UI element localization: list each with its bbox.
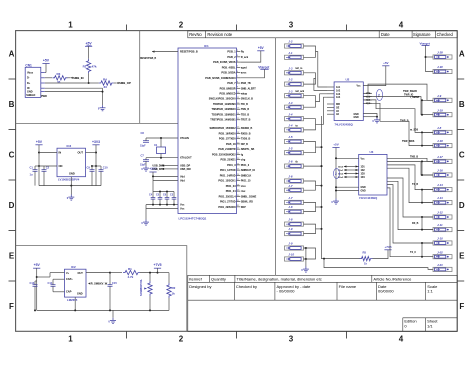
capacitor C10 bbox=[99, 166, 109, 186]
svg-text:TMS_B: TMS_B bbox=[241, 108, 250, 111]
power Vtarget (right column) bbox=[420, 41, 434, 71]
svg-text:C2: C2 bbox=[46, 166, 50, 170]
svg-text:J-7: J-7 bbox=[288, 196, 293, 200]
jumper J-11 (right column row 12) bbox=[433, 223, 452, 232]
jumper J-18 (right column row 6) bbox=[433, 139, 452, 148]
MCU left pins bbox=[140, 50, 198, 210]
svg-text:J-2: J-2 bbox=[288, 78, 293, 82]
svg-text:PGB_7: PGB_7 bbox=[227, 82, 236, 85]
jumper J-13 (right column row 10) bbox=[433, 196, 452, 205]
connector CN1 bbox=[25, 63, 45, 97]
svg-text:+5V: +5V bbox=[258, 46, 265, 50]
svg-text:Checked by: Checked by bbox=[236, 284, 257, 289]
wire U2 ground bbox=[363, 114, 378, 118]
U2 left pin stubs bbox=[327, 87, 334, 114]
U2 output pins with arrows bbox=[363, 92, 372, 104]
svg-text:IC3: IC3 bbox=[67, 144, 72, 148]
net label R_SMBXV_W bbox=[88, 282, 108, 286]
svg-text:USB_DM: USB_DM bbox=[180, 168, 191, 171]
svg-text:R_ack: R_ack bbox=[241, 56, 249, 59]
net label SMB_IN bbox=[68, 76, 84, 80]
svg-text:avss: avss bbox=[241, 72, 247, 75]
svg-text:OUT: OUT bbox=[78, 151, 84, 155]
svg-text:A: A bbox=[9, 50, 15, 59]
svg-text:Vss: Vss bbox=[180, 208, 185, 211]
svg-text:CAP+: CAP+ bbox=[66, 278, 73, 281]
svg-text:Vpwr: Vpwr bbox=[86, 45, 91, 47]
wire jumper pair link bbox=[304, 142, 316, 153]
svg-text:XTALOUT: XTALOUT bbox=[180, 157, 192, 160]
wire IC3 input bbox=[39, 153, 57, 167]
jumper J-16 (right column row 8) bbox=[433, 169, 452, 177]
revision note bar bbox=[188, 31, 457, 38]
svg-text:R1: R1 bbox=[128, 267, 132, 271]
svg-text:J-6: J-6 bbox=[288, 175, 293, 179]
ground (MCU Vss) bbox=[141, 220, 149, 226]
jumper J-2 (mid column row 1) bbox=[285, 40, 304, 49]
svg-text:RESET/PGB_B: RESET/PGB_B bbox=[140, 58, 157, 60]
capacitor C3 bbox=[170, 192, 176, 205]
svg-text:Designed by: Designed by bbox=[189, 284, 211, 289]
wire box C ground rail bbox=[34, 297, 169, 318]
MCU right pins group 1 bbox=[205, 50, 240, 122]
svg-text:Vdd: Vdd bbox=[180, 180, 185, 183]
svg-text:DN7: DN7 bbox=[241, 206, 247, 209]
wire bus to U2 inputs bbox=[314, 52, 327, 148]
svg-text:B: B bbox=[459, 100, 465, 109]
svg-text:ON: ON bbox=[59, 164, 63, 168]
resistor R5 bbox=[360, 250, 373, 265]
wire jumper pair link (right column) bbox=[421, 160, 433, 176]
capacitor C9 bbox=[87, 166, 95, 186]
power +7V5 bbox=[153, 263, 169, 273]
svg-text:GND: GND bbox=[361, 187, 366, 189]
resistor R1 (box C) bbox=[123, 267, 158, 279]
power +5V (regulator in) bbox=[35, 140, 42, 186]
capacitor C8 bbox=[140, 131, 149, 148]
svg-text:IC2: IC2 bbox=[71, 265, 76, 269]
power +3V3 (MCU supply) bbox=[149, 167, 157, 181]
jumper J-30 (right column row 2) bbox=[433, 65, 452, 74]
svg-text:Checked: Checked bbox=[437, 32, 454, 37]
jumper J-5 (mid column row 10) bbox=[285, 146, 304, 155]
svg-text:74LVC4245BQ: 74LVC4245BQ bbox=[359, 196, 377, 200]
svg-text:J-6: J-6 bbox=[288, 160, 293, 164]
svg-text:RevNo: RevNo bbox=[189, 32, 202, 37]
op-amp U1 MCU IC1 body bbox=[178, 44, 237, 221]
svg-text:SOSMBCPVOL: SOSMBCPVOL bbox=[140, 278, 143, 296]
U3 input pins with labels bbox=[338, 165, 359, 178]
wire to jumper J-01 bbox=[323, 258, 433, 270]
jumper J-9 (mid column row 18) bbox=[285, 242, 304, 250]
IC regulator IC3 bbox=[57, 144, 86, 181]
svg-text:SMB_OP: SMB_OP bbox=[119, 81, 131, 85]
svg-text:C14: C14 bbox=[48, 281, 53, 285]
svg-text:J-30: J-30 bbox=[437, 65, 443, 69]
svg-text:J-02: J-02 bbox=[437, 250, 443, 254]
svg-text:33: 33 bbox=[104, 85, 108, 89]
svg-text:File name: File name bbox=[339, 284, 357, 289]
power +5V (CN1) bbox=[42, 59, 49, 73]
svg-text:J-14: J-14 bbox=[437, 183, 443, 187]
wire IC2 out net bbox=[86, 272, 122, 285]
jumper J-9 (right column row 3) bbox=[433, 94, 452, 102]
svg-text:C1: C1 bbox=[30, 166, 34, 170]
resistor R2 (box C) bbox=[167, 273, 176, 311]
capacitor C5 bbox=[156, 191, 162, 205]
wire jumper pair link bbox=[304, 224, 316, 234]
svg-text:PGB_1: PGB_1 bbox=[227, 51, 236, 54]
capacitor C14 (flying cap) bbox=[48, 279, 65, 292]
svg-text:1: 1 bbox=[68, 334, 73, 343]
svg-text:J-8: J-8 bbox=[288, 205, 293, 209]
svg-text:J-9: J-9 bbox=[288, 242, 293, 246]
svg-text:15pF: 15pF bbox=[140, 145, 146, 148]
resistor R3 bbox=[45, 72, 68, 84]
svg-text:PIO1_14/RXD: PIO1_14/RXD bbox=[220, 174, 236, 177]
svg-text:SMBCLK: SMBCLK bbox=[241, 174, 252, 177]
svg-text:00/00/00: 00/00/00 bbox=[378, 288, 394, 293]
jumper J-19 (right column row 4) bbox=[433, 108, 452, 116]
svg-text:PGB_5/SDA: PGB_5/SDA bbox=[221, 72, 235, 75]
svg-text:- 00/00/00: - 00/00/00 bbox=[277, 288, 296, 293]
svg-text:R5: R5 bbox=[363, 250, 367, 254]
wire jumper pair link (right column) bbox=[421, 216, 433, 231]
svg-text:C: C bbox=[9, 151, 15, 160]
wire jumper pair link bbox=[304, 248, 316, 259]
svg-text:rtsx: rtsx bbox=[241, 190, 246, 193]
svg-text:twl_ack: twl_ack bbox=[296, 90, 305, 93]
wire jumper pair link bbox=[304, 73, 316, 84]
svg-text:GND: GND bbox=[354, 117, 359, 119]
capacitor C15 bbox=[108, 281, 118, 310]
svg-text:IC1: IC1 bbox=[204, 44, 209, 48]
svg-text:Quantity: Quantity bbox=[211, 276, 226, 281]
jumper J-8 (right column row 5) bbox=[433, 126, 452, 135]
ground (crystal) bbox=[141, 161, 149, 171]
svg-text:J-9: J-9 bbox=[288, 227, 293, 231]
svg-text:J-4: J-4 bbox=[288, 124, 293, 128]
svg-text:twl_io: twl_io bbox=[296, 67, 303, 70]
svg-text:TDI/PGB_11/MOSI0: TDI/PGB_11/MOSI0 bbox=[213, 103, 236, 106]
bus tag (U3) bbox=[334, 169, 340, 179]
svg-text:TDO/PGB_13/MISO1: TDO/PGB_13/MISO1 bbox=[212, 113, 237, 116]
capacitor C1 bbox=[30, 166, 38, 186]
svg-text:PIO1_3: PIO1_3 bbox=[227, 164, 236, 167]
power Vtarget (MCU) bbox=[240, 65, 270, 78]
wire C8/C7 ground leg bbox=[0, 0, 1, 1]
wire R1 to D+ net bbox=[88, 73, 90, 84]
ground (U3) bbox=[331, 199, 339, 205]
svg-text:F: F bbox=[459, 302, 464, 311]
power +5V (U3) bbox=[332, 143, 358, 199]
svg-text:J-8: J-8 bbox=[437, 126, 442, 130]
svg-text:C15: C15 bbox=[112, 281, 117, 285]
svg-text:2: 2 bbox=[179, 334, 184, 343]
jumper J-3 (mid column row 3) bbox=[285, 66, 304, 74]
svg-text:C10: C10 bbox=[103, 166, 108, 170]
svg-text:Article No./Reference: Article No./Reference bbox=[373, 276, 412, 281]
svg-text:F: F bbox=[9, 302, 14, 311]
svg-text:Title/Name, designation, mater: Title/Name, designation, material, dimen… bbox=[237, 276, 322, 281]
ground (mid column) bbox=[301, 267, 309, 273]
svg-text:C7: C7 bbox=[141, 154, 145, 158]
wire Vss rails bbox=[146, 204, 178, 220]
wire regulator ground rail bbox=[35, 165, 101, 195]
svg-text:47k: 47k bbox=[92, 64, 97, 68]
svg-text:GND: GND bbox=[354, 114, 359, 116]
svg-text:SHIELD: SHIELD bbox=[26, 94, 35, 97]
svg-text:4.7k: 4.7k bbox=[128, 275, 134, 279]
svg-text:R1: R1 bbox=[83, 64, 87, 68]
svg-text:+3V3: +3V3 bbox=[92, 140, 100, 144]
svg-text:1u: 1u bbox=[30, 173, 33, 177]
IC U2 bbox=[334, 78, 363, 127]
jumper J-2 (mid column row 4) bbox=[285, 78, 304, 87]
net label SMB_OP bbox=[114, 81, 131, 85]
resistor R4 bbox=[45, 77, 114, 89]
jumper J-4 (mid column row 8) bbox=[285, 124, 304, 133]
jumper J-4 (mid column row 6) bbox=[285, 101, 304, 109]
capacitor C2 bbox=[42, 166, 50, 186]
svg-text:J-10: J-10 bbox=[437, 237, 443, 241]
svg-text:PIO1_27/TXD: PIO1_27/TXD bbox=[220, 201, 236, 204]
svg-text:1A2: 1A2 bbox=[336, 89, 341, 92]
ground (CN1) bbox=[98, 105, 106, 111]
svg-text:OUT: OUT bbox=[78, 272, 84, 275]
jumper J-1 (mid column row 2) bbox=[285, 51, 304, 60]
svg-text:+5V: +5V bbox=[43, 59, 50, 63]
svg-text:+7V5: +7V5 bbox=[153, 263, 161, 267]
svg-text:PGB_16/RXD0: PGB_16/RXD0 bbox=[219, 132, 237, 135]
title block bbox=[188, 275, 457, 331]
wire jumper pair link bbox=[304, 46, 316, 57]
jumper J-02 (right column row 14) bbox=[433, 250, 452, 259]
wire long vertical bus bbox=[321, 116, 361, 259]
svg-text:wkup: wkup bbox=[241, 92, 248, 95]
svg-text:J-18: J-18 bbox=[437, 139, 443, 143]
svg-text:2: 2 bbox=[179, 20, 184, 29]
svg-text:U2: U2 bbox=[346, 78, 350, 82]
svg-text:Itemref: Itemref bbox=[189, 276, 202, 281]
jumper J-6 (mid column row 11) bbox=[285, 160, 304, 169]
svg-text:C9: C9 bbox=[87, 166, 91, 170]
svg-text:A: A bbox=[459, 50, 465, 59]
MCU right net labels group 1 bbox=[241, 51, 256, 122]
svg-text:J-7: J-7 bbox=[288, 184, 293, 188]
crystal X1 bbox=[154, 143, 166, 154]
svg-text:X1: X1 bbox=[154, 143, 158, 147]
wire U3 ground bbox=[335, 186, 359, 191]
svg-text:SMB_IN: SMB_IN bbox=[73, 76, 84, 80]
svg-text:SMB_ALERT: SMB_ALERT bbox=[241, 87, 256, 90]
svg-text:R_SMBXV_W: R_SMBXV_W bbox=[91, 282, 108, 286]
svg-text:agnd: agnd bbox=[241, 66, 247, 69]
jumper J-8 (mid column row 16) bbox=[285, 218, 304, 227]
power +3V3 (regulator out) bbox=[92, 140, 100, 186]
svg-text:Revision note: Revision note bbox=[207, 32, 233, 37]
svg-text:PWR: PWR bbox=[41, 95, 47, 98]
svg-text:RESET/PGB_B: RESET/PGB_B bbox=[180, 51, 198, 54]
svg-text:chg: chg bbox=[241, 159, 246, 162]
svg-text:TWR_B: TWR_B bbox=[400, 120, 409, 123]
wire jumper pair link (right column) bbox=[421, 131, 433, 146]
svg-text:PGB_4/SDL: PGB_4/SDL bbox=[222, 66, 236, 69]
svg-text:4: 4 bbox=[399, 334, 404, 343]
svg-text:+5V: +5V bbox=[36, 140, 43, 144]
svg-text:PIO1_29/SCK8: PIO1_29/SCK8 bbox=[218, 206, 236, 209]
svg-text:PIO1_3: PIO1_3 bbox=[241, 164, 250, 167]
jumper J-7 (mid column row 14) bbox=[285, 196, 304, 205]
svg-text:1: 1 bbox=[68, 20, 73, 29]
svg-text:Vtarget: Vtarget bbox=[420, 41, 430, 45]
svg-text:TXD0_B: TXD0_B bbox=[241, 138, 251, 141]
wire jumper pair link (right column) bbox=[421, 189, 433, 204]
wire routes U2/U3 to jumpers bbox=[363, 84, 433, 100]
wire jumper pair link bbox=[304, 181, 316, 190]
svg-text:USB_DPB: USB_DPB bbox=[153, 168, 165, 171]
IC U3 bbox=[359, 150, 387, 200]
power +5V (pull-up rail) bbox=[85, 41, 92, 59]
svg-text:PGB_18: PGB_18 bbox=[226, 143, 236, 146]
svg-text:J-28: J-28 bbox=[437, 51, 443, 55]
svg-text:XTALIN: XTALIN bbox=[180, 137, 189, 140]
svg-text:+5V: +5V bbox=[383, 61, 388, 65]
svg-text:GND: GND bbox=[77, 293, 83, 296]
svg-text:TRST/PGB_14/MOSI1: TRST/PGB_14/MOSI1 bbox=[210, 119, 236, 122]
svg-text:PGB_3/USB_VBUS: PGB_3/USB_VBUS bbox=[213, 61, 236, 64]
resistor R1 pull-up bbox=[83, 59, 97, 74]
wire jumper pair link bbox=[304, 202, 316, 211]
svg-text:D-: D- bbox=[27, 77, 30, 80]
svg-text:J-5: J-5 bbox=[288, 146, 293, 150]
svg-text:m_SD0: m_SD0 bbox=[410, 129, 419, 132]
border frame bbox=[16, 31, 458, 332]
svg-text:Signature: Signature bbox=[413, 32, 431, 37]
potentiometer RV1 bbox=[140, 272, 152, 311]
svg-text:PIO1_15: PIO1_15 bbox=[241, 180, 251, 183]
svg-text:Vcc: Vcc bbox=[361, 158, 366, 160]
svg-text:1/1: 1/1 bbox=[427, 324, 433, 329]
svg-text:PGB_6/USB_CONN/SCK0: PGB_6/USB_CONN/SCK0 bbox=[205, 77, 236, 80]
svg-text:B: B bbox=[9, 100, 15, 109]
wire IC2 V+ bbox=[37, 273, 65, 277]
wire bypass rail top bbox=[153, 191, 174, 193]
jumper J-8 (mid column row 15) bbox=[285, 205, 304, 214]
svg-text:PGB_9/NDCD: PGB_9/NDCD bbox=[219, 92, 235, 95]
svg-text:RXD0_B: RXD0_B bbox=[241, 132, 251, 135]
jumper J-10 (mid column row 19) bbox=[285, 253, 304, 262]
jumper J-10 (right column row 13) bbox=[433, 237, 452, 245]
svg-text:PIO1_24: PIO1_24 bbox=[226, 190, 236, 193]
svg-text:PGB_2: PGB_2 bbox=[227, 56, 236, 59]
svg-text:J-1: J-1 bbox=[288, 51, 293, 55]
svg-text:J-8: J-8 bbox=[288, 218, 293, 222]
svg-text:J-01: J-01 bbox=[437, 263, 443, 267]
ground (regulator) bbox=[67, 195, 75, 201]
wire jumper pair link bbox=[304, 96, 316, 108]
bus tag (U2) bbox=[376, 90, 382, 101]
svg-text:1D1: 1D1 bbox=[361, 166, 366, 168]
svg-text:IN: IN bbox=[59, 151, 62, 155]
svg-text:TX_B: TX_B bbox=[412, 183, 418, 186]
svg-text:D: D bbox=[9, 201, 15, 210]
capacitor C6 bbox=[163, 191, 169, 205]
svg-text:Vcc: Vcc bbox=[357, 85, 362, 87]
power +5V (box C) bbox=[33, 263, 40, 310]
svg-text:J-17: J-17 bbox=[437, 155, 443, 159]
jumper J-5 (mid column row 9) bbox=[285, 135, 304, 143]
wire XTALIN net bbox=[146, 137, 178, 147]
capacitor C13 bbox=[30, 281, 38, 310]
svg-text:PGB_17/TXD0: PGB_17/TXD0 bbox=[219, 138, 236, 141]
svg-text:PGB_22/XXB/WOD2: PGB_22/XXB/WOD2 bbox=[212, 153, 236, 156]
MCU right pins group 2 bbox=[209, 127, 240, 209]
svg-text:PIO1_15/SCK1: PIO1_15/SCK1 bbox=[218, 180, 236, 183]
power +5V (U2) bbox=[363, 61, 389, 86]
wire XTALOUT net bbox=[146, 154, 178, 160]
svg-text:PIO1_23: PIO1_23 bbox=[226, 185, 236, 188]
svg-text:D+: D+ bbox=[27, 82, 31, 85]
svg-text:SWCLK/PGB_10/SCK0: SWCLK/PGB_10/SCK0 bbox=[209, 98, 236, 101]
svg-text:TDI_B: TDI_B bbox=[241, 103, 248, 106]
capacitor C7 bbox=[140, 154, 149, 167]
jumper J-6 (mid column row 12) bbox=[285, 175, 304, 183]
ground (U2) bbox=[372, 117, 380, 123]
svg-text:J-16: J-16 bbox=[437, 169, 443, 173]
svg-text:J-10: J-10 bbox=[288, 253, 294, 257]
svg-text:Vdd: Vdd bbox=[180, 175, 185, 178]
svg-text:C8: C8 bbox=[141, 131, 145, 135]
svg-text:D: D bbox=[459, 201, 465, 210]
svg-text:1Dx0: 1Dx0 bbox=[338, 166, 344, 168]
svg-text:Date: Date bbox=[381, 32, 390, 37]
schematic block dividing lines bbox=[16, 31, 276, 332]
svg-text:U3: U3 bbox=[370, 150, 374, 154]
jumper J-7 (mid column row 13) bbox=[285, 184, 304, 193]
svg-text:R3: R3 bbox=[57, 72, 61, 76]
svg-text:Vtarget: Vtarget bbox=[258, 65, 270, 69]
svg-text:1A1: 1A1 bbox=[336, 86, 341, 89]
svg-text:1Dx2: 1Dx2 bbox=[338, 173, 344, 175]
capacitor C4 bbox=[149, 192, 155, 205]
svg-text:1A3: 1A3 bbox=[336, 93, 341, 96]
svg-text:2: 2 bbox=[378, 94, 380, 98]
svg-text:1A4: 1A4 bbox=[336, 96, 341, 99]
svg-text:CN1: CN1 bbox=[25, 63, 32, 67]
svg-text:E: E bbox=[9, 252, 15, 261]
svg-text:TDO_B: TDO_B bbox=[241, 113, 250, 116]
svg-text:OE: OE bbox=[336, 107, 340, 109]
svg-text:J-5: J-5 bbox=[288, 135, 293, 139]
svg-text:+5V: +5V bbox=[34, 263, 41, 267]
svg-text:J-19: J-19 bbox=[437, 108, 443, 112]
svg-text:SMBDAT_IO: SMBDAT_IO bbox=[241, 169, 255, 172]
svg-text:PIO1_25/SCL4: PIO1_25/SCL4 bbox=[219, 195, 237, 198]
wire jumper pair link (right column) bbox=[421, 242, 433, 258]
wire pair feeds to vertical bus bbox=[316, 185, 323, 230]
svg-text:J-12: J-12 bbox=[437, 211, 443, 215]
svg-text:DIR: DIR bbox=[336, 104, 340, 106]
svg-text:TWR_IO: TWR_IO bbox=[404, 94, 413, 97]
svg-text:TMS_B: TMS_B bbox=[410, 156, 418, 159]
svg-text:PGB_23/XD1: PGB_23/XD1 bbox=[220, 159, 236, 162]
IC charge pump IC2 bbox=[65, 265, 87, 302]
wire Vdd pins bbox=[152, 175, 178, 191]
svg-text:CAP-: CAP- bbox=[66, 291, 72, 294]
svg-text:SWDIO_B: SWDIO_B bbox=[241, 127, 253, 130]
svg-text:ctsx: ctsx bbox=[241, 185, 247, 188]
